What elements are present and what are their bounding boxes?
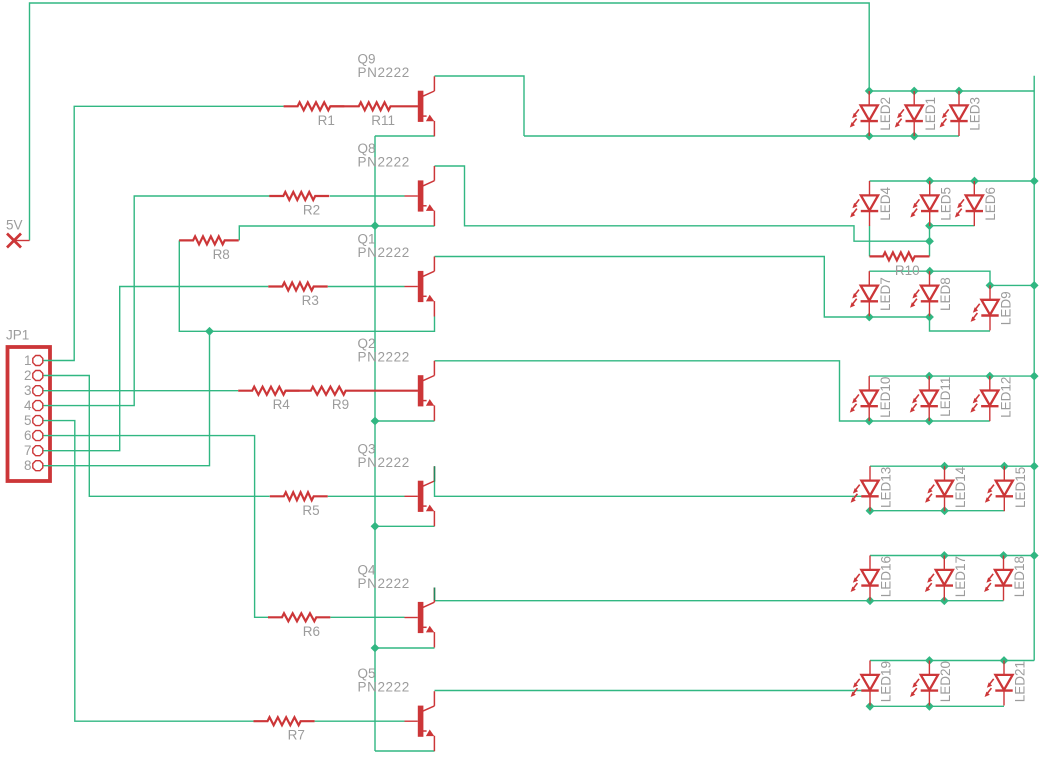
svg-text:7: 7 bbox=[24, 443, 32, 458]
svg-text:JP1: JP1 bbox=[6, 328, 29, 343]
svg-text:LED20: LED20 bbox=[938, 661, 953, 702]
svg-text:LED5: LED5 bbox=[938, 187, 953, 221]
svg-text:LED17: LED17 bbox=[953, 556, 968, 597]
svg-text:PN2222: PN2222 bbox=[358, 349, 410, 364]
svg-text:1: 1 bbox=[24, 353, 32, 368]
svg-text:8: 8 bbox=[24, 458, 32, 473]
svg-text:LED2: LED2 bbox=[878, 97, 893, 131]
svg-text:R11: R11 bbox=[371, 113, 395, 128]
svg-text:LED9: LED9 bbox=[999, 291, 1014, 325]
svg-text:LED21: LED21 bbox=[1013, 661, 1028, 702]
svg-text:PN2222: PN2222 bbox=[358, 680, 410, 695]
svg-text:LED18: LED18 bbox=[1012, 556, 1027, 597]
svg-text:LED16: LED16 bbox=[879, 556, 894, 597]
svg-text:LED3: LED3 bbox=[968, 97, 983, 131]
svg-text:R5: R5 bbox=[302, 503, 319, 518]
svg-text:R6: R6 bbox=[303, 624, 320, 639]
svg-text:LED7: LED7 bbox=[878, 277, 893, 311]
svg-text:R1: R1 bbox=[318, 113, 335, 128]
svg-text:PN2222: PN2222 bbox=[358, 455, 410, 470]
svg-text:LED15: LED15 bbox=[1013, 467, 1028, 508]
svg-text:PN2222: PN2222 bbox=[358, 576, 410, 591]
svg-text:LED8: LED8 bbox=[938, 277, 953, 311]
svg-text:R8: R8 bbox=[213, 247, 230, 262]
svg-text:5V: 5V bbox=[6, 218, 23, 233]
svg-text:R10: R10 bbox=[895, 263, 920, 278]
svg-text:LED10: LED10 bbox=[878, 377, 893, 418]
svg-text:5: 5 bbox=[24, 413, 32, 428]
svg-text:R3: R3 bbox=[302, 293, 319, 308]
svg-text:PN2222: PN2222 bbox=[358, 65, 410, 80]
svg-text:LED12: LED12 bbox=[999, 377, 1014, 418]
svg-text:R9: R9 bbox=[332, 397, 349, 412]
svg-text:R7: R7 bbox=[288, 728, 305, 743]
svg-text:LED13: LED13 bbox=[879, 467, 894, 508]
svg-text:4: 4 bbox=[24, 398, 32, 413]
svg-text:3: 3 bbox=[24, 383, 32, 398]
svg-text:LED4: LED4 bbox=[878, 187, 893, 221]
svg-text:6: 6 bbox=[24, 428, 32, 443]
svg-text:R4: R4 bbox=[273, 397, 291, 412]
svg-text:LED19: LED19 bbox=[879, 661, 894, 702]
svg-text:PN2222: PN2222 bbox=[358, 155, 410, 170]
svg-text:LED1: LED1 bbox=[923, 97, 938, 131]
svg-text:PN2222: PN2222 bbox=[358, 245, 410, 260]
svg-text:2: 2 bbox=[24, 368, 32, 383]
svg-text:R2: R2 bbox=[303, 203, 320, 218]
svg-text:LED6: LED6 bbox=[983, 187, 998, 221]
svg-text:LED11: LED11 bbox=[938, 377, 953, 417]
svg-text:LED14: LED14 bbox=[953, 466, 968, 508]
